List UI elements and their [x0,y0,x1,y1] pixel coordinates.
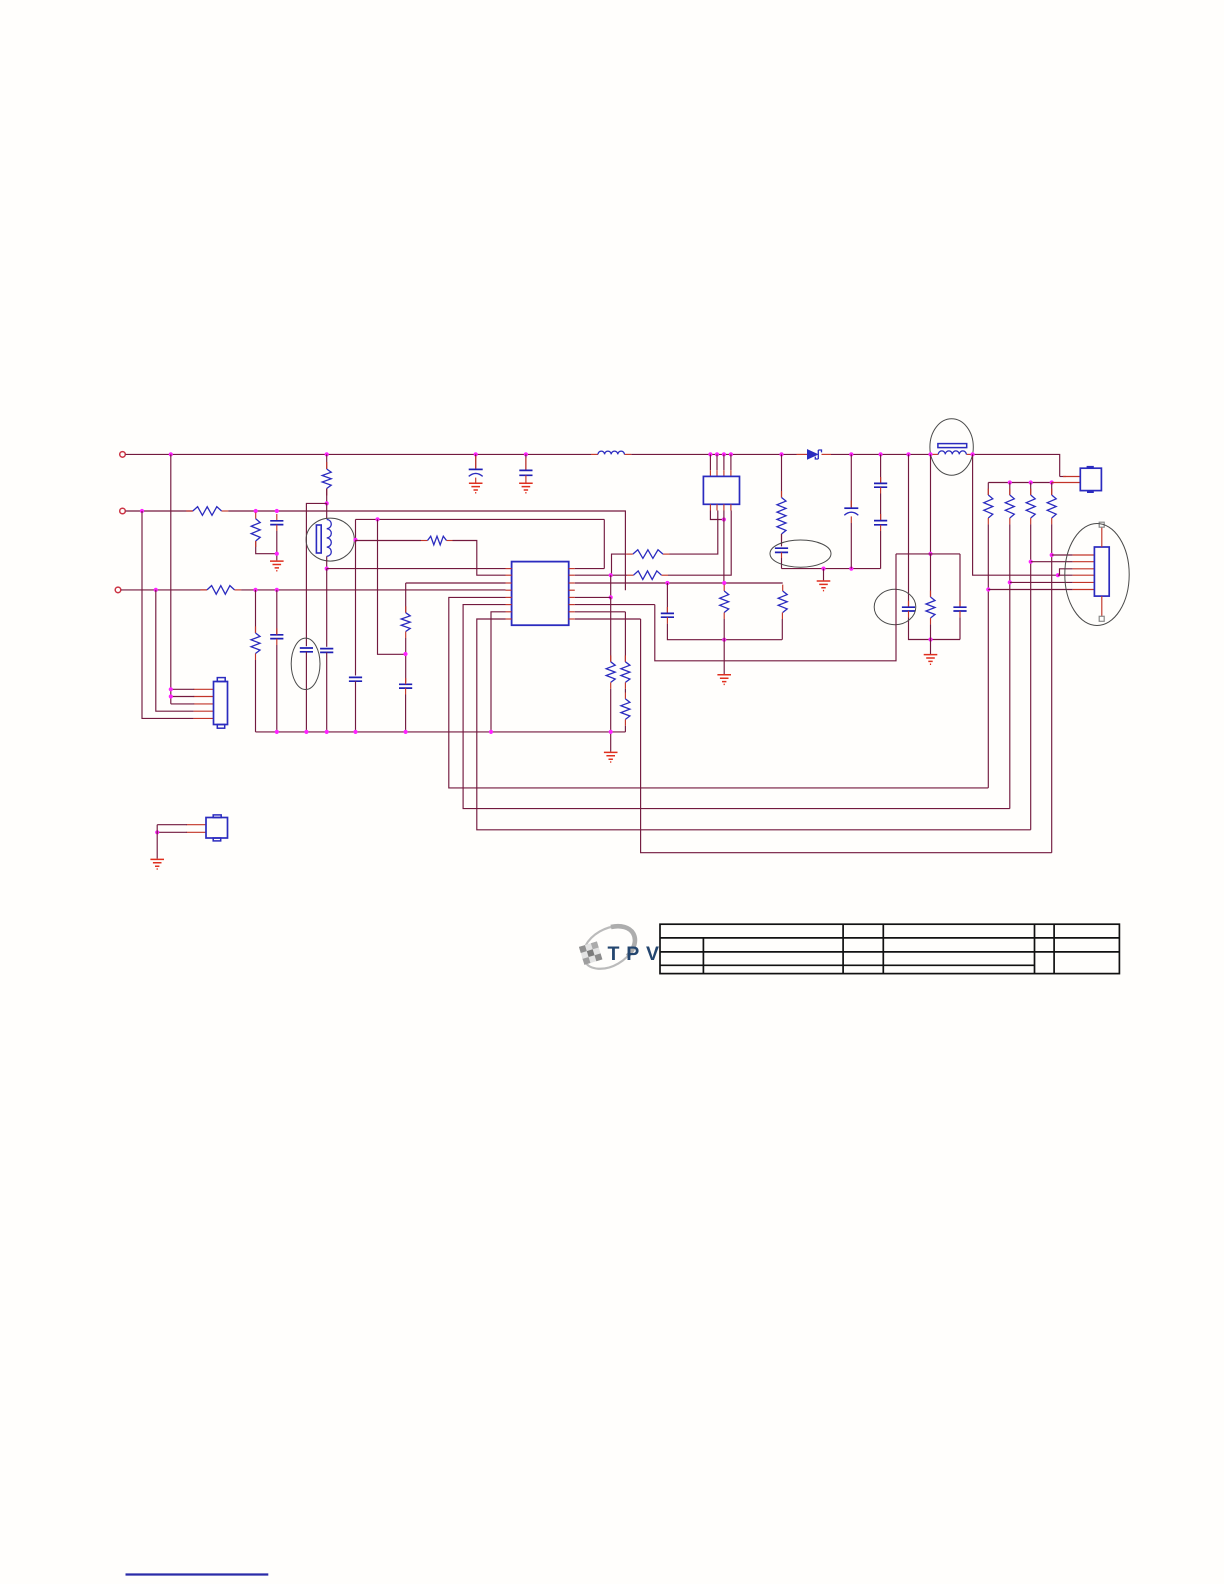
junction C3/R2 node [275,552,279,556]
resistor R1 [193,507,222,516]
junction line1/x908 [906,452,910,456]
wire line1 to C10 [850,454,852,507]
wire CN3 pin6 row [988,589,1072,591]
resistor R3 [322,469,331,489]
resistor R12 [926,597,935,618]
junction pin11/C15 [665,581,669,585]
wire R2 bottom link [256,541,277,554]
capacitor C15 [661,613,674,617]
resistor R5 [207,586,235,595]
wire crystal top to C5 column [306,503,326,646]
title block outer frame [660,924,1119,973]
wire net-box top edge [896,553,960,555]
capacitor C4 [270,635,283,639]
wire CN1 pin1 [171,688,194,690]
wire rail to R20 [1009,483,1011,496]
pin stub CN3 bottom [1101,596,1103,616]
crystal X1 coil [327,520,332,557]
junction line1/x170 [169,452,173,456]
capacitor C7 [399,684,412,688]
junction topedge/x930 [928,552,932,556]
junction line1/C10 [849,452,853,456]
wire R7 column top [405,583,407,613]
capacitor C11 [874,483,887,487]
annotation circle around C13 [874,589,916,624]
resistor R22 [1047,495,1056,518]
connector CN1 body [214,682,228,725]
TPV logo swoosh [576,917,643,977]
wire ground bus y732 [256,731,626,733]
annotation ellipse around L2 [930,419,973,475]
wire pin15 column [624,612,626,662]
wire C13 to net-box bottom edge [909,617,961,639]
wire top rail segment A [126,453,592,455]
resistor R6 [251,633,260,654]
wire line1 to C1 [475,454,477,468]
wire rail to R22 [1051,483,1053,496]
wire rail to R21 [1030,483,1032,496]
resistor R9 (tall) [777,498,786,535]
wire line1 to C2 [525,454,527,470]
wire pin16 loop4 [641,619,1052,853]
connector CN3 pin stubs [1073,555,1095,590]
wire x930 to R12 [930,554,932,597]
capacitor C10 (polarized) [844,507,858,509]
connector CN1 top tab [217,678,225,682]
junction line1/R9col [779,452,783,456]
wire net-box right edge to C14 [959,554,961,607]
wire U2 pin6 to R11 row [670,511,718,555]
wire U1 pin3 to R7 [406,582,506,584]
junction bus/C4 [275,730,279,734]
wire R6 to gnd bus [255,660,257,732]
ferrite bead FB1 bar [938,444,967,448]
resistor R21 [1026,495,1035,518]
wire CN3 pin1 row [1052,554,1073,556]
junction line2/C3col [275,509,279,513]
ground symbol at local bus [817,581,831,591]
wire crystal bottom [326,556,328,568]
junction crystal top node [325,501,329,505]
pin stub CN3 top [1101,527,1103,547]
wire x377 drop to C7 node [378,519,406,654]
mounting square CN3 bottom [1099,616,1104,621]
junction line1/U2 pin1 [708,452,712,456]
wire top rail segment C [831,453,932,455]
junction U2 pin5/pin7 col [722,517,726,521]
ground symbol below bus [604,752,618,762]
wire local bus y568 [782,568,881,570]
wire U1 pin11 row [575,582,783,584]
wire C4 to gnd bus [276,645,278,732]
junction net data3/CN3 [1029,560,1033,564]
pin stub inductor L1 right [624,453,631,455]
wire x142 to CN1 pin5 [142,511,194,718]
wire C5 to gnd bus [305,652,307,732]
junction line3/C4col [275,588,279,592]
wire ground stem x930 [930,640,932,655]
wire R6 column [255,590,257,633]
wire CN1 pin3 [171,703,194,705]
junction y639/U2pin7 gnd [722,638,726,642]
component Y2 top tab [1087,466,1094,469]
junction R7col/x377 jog [403,652,407,656]
junction bus568/C10col [849,567,853,571]
wire line1 to C11 [880,454,882,483]
junction line2/x142 [140,509,144,513]
IC U2 (top supervisor) [703,476,739,504]
pin stub diode D1 cathode [822,453,832,455]
capacitor C3 [270,521,283,525]
wire osc loop top [356,518,605,520]
wire U1 pin15 row [575,611,626,613]
capacitor C9 [775,548,788,552]
ground symbol under C2 [519,483,533,493]
connector CN2 pin stubs [186,825,206,833]
wire C6 to gnd bus [326,652,328,732]
wire crystal net to U1 pin1 [327,568,506,570]
connector CN1 bottom tab [217,725,224,729]
wire pin10 node drop [610,575,612,597]
terminal J1 (top input) [120,452,126,458]
capacitor C5 [300,648,313,652]
wire CN2 pin1 [157,824,187,826]
junction x170/CN1 pin1 [169,687,173,691]
annotation circle around crystal X1 [306,518,354,561]
wire crystal top node to coil [326,503,328,519]
junction bus/C7 [404,730,408,734]
terminal J3 (lower input) [115,587,121,593]
junction x170/CN1 pin2 [169,694,173,698]
wire line3 segment B to U1 pin4 [241,589,505,591]
junction line3/x155 [154,588,158,592]
ground symbol right of U1 [924,655,938,665]
mounting square CN3 top [1099,522,1104,527]
annotation ellipse around CN3 [1065,524,1129,626]
wire R9 to C9 [781,534,783,546]
capacitor C2 [519,470,532,475]
capacitor C14 [953,607,966,611]
wire C10 to local bus [850,523,852,569]
junction bus/pin7 [489,730,493,734]
wire C4 column [276,590,278,635]
capacitor C12 [874,521,887,525]
wire U2 pin2 top [716,454,718,470]
junction line1/U2 pin4 [729,452,733,456]
capacitor C6 [320,649,333,653]
wire U1 pin5 loop1 [449,597,989,788]
junction line1/x930 [928,452,932,456]
ground symbol under CN2 [150,859,164,869]
wire C14 to bottom edge [959,617,961,639]
wire U1 pin7 to gnd bus [491,612,506,732]
junction net data2/CN3 [1008,580,1012,584]
resistor R2 [251,519,260,541]
pin stub Y2 pin2 [1052,482,1081,484]
wire U2 pin3 top [723,454,725,470]
component Y2 bottom tab [1087,490,1094,493]
junction rail/col3 [1029,480,1033,484]
resistor R17 [621,662,630,683]
junction line1/U2 pin3 [722,452,726,456]
junction line1/C2 [524,452,528,456]
wire net data4 column [1051,524,1053,852]
svg-text:TPV: TPV [608,943,666,965]
wire U1 pin10 row [575,574,627,576]
wire line1 x908 column [908,454,910,607]
wire top rail segment B [631,453,796,455]
wire CN2 pin2 [157,831,187,833]
wire CN3 pin5 row [1010,581,1073,583]
wire pin13 to R14 [610,597,612,661]
junction pin10/pin13 row [609,595,613,599]
junction crystal bottom node [325,567,329,571]
wire C3 to ground [276,531,278,560]
junction net data1/CN3 [986,587,990,591]
junction CN2 pin2/gnd col [155,830,159,834]
resistor R16 [778,591,787,613]
pin stub diode D1 anode [797,453,808,455]
wire CN2 to ground [156,825,158,859]
wire R3 to crystal top node [326,489,328,504]
junction line2/R2col [254,509,258,513]
wire pin3 step [1058,569,1073,575]
wire U2pin7 col to ground [723,619,725,674]
resistor R19 [984,495,993,518]
wire C11 to C12 [880,494,882,521]
wire U2 pin4 top [730,454,732,470]
wire R16 to y639 link [781,619,783,640]
wire R17 to R18 [624,689,626,693]
crystal X1 body [316,525,321,553]
capacitor C1 (polarized) [469,468,483,470]
junction line3/R6col [253,588,257,592]
wire osc node to R4 [356,540,422,542]
footer blue line [126,1573,269,1575]
wire U2 pin1 top [709,454,711,470]
wire pullup rail [988,482,1051,484]
wire net data2 column [1009,524,1011,808]
connector CN3 body [1094,547,1109,596]
wire line1 to R3 [326,454,328,469]
resistor R20 [1005,495,1014,518]
wire gnd stem x610 [610,732,612,752]
wire C7 to gnd bus [405,695,407,732]
wire x155 to CN1 pin4 [156,590,194,711]
junction osc left node [353,538,357,542]
junction osc loop / x377 [375,517,379,521]
connector CN2 body [206,818,228,839]
resistor R11 [633,550,663,559]
wire R12 to bottom edge [930,624,932,639]
wire CN3 pin2 row [1031,561,1073,563]
wire osc loop riser right to U1 pin9 [603,519,605,568]
wire gnd stem at 823 [823,569,825,581]
pin stub inductor L2 left [932,453,939,455]
wire U1 pin14 row [575,604,655,606]
wire CN1 pin2 [171,696,194,698]
wire R14 to gnd bus [610,689,612,732]
IC U1 (main controller) [512,562,569,626]
capacitor C8 [349,677,362,681]
junction bus/C6 [325,730,329,734]
component Y2 body [1080,468,1101,490]
junction bus/C5 [304,730,308,734]
pin stub inductor L1 left [591,453,598,455]
wire U1 pin16 row [575,618,641,620]
resistor R15 [720,591,729,613]
inductor L2 [938,451,966,454]
inductor L1 [598,451,624,454]
junction bus/C8 [353,730,357,734]
pin stub inductor L2 right [966,453,972,455]
junction rail/col2 [1008,480,1012,484]
connector CN2 bottom tab [213,838,221,841]
wire U1 pin6 loop2 [463,605,1010,809]
junction pin4/pin3 step [1056,573,1060,577]
junction line1/R3col [325,452,329,456]
wire pin14 big loop [655,554,896,661]
resistor R18 [621,699,630,720]
junction bus/R14 [609,730,613,734]
junction net data4/CN3 [1050,553,1054,557]
wire U1 pin8 loop3 [477,619,1031,830]
wire U2 pin5 jog [710,511,724,520]
wire C9 to local bus [781,558,783,569]
annotation ellipse around C9 [770,540,831,567]
connector CN1 pin stubs [194,689,214,718]
wire R13 to U2 pin8 [668,511,731,576]
wire net data3 column [1030,524,1032,829]
wire U1 pin9 (R1 row) [575,568,605,570]
wire line2 segment A [126,510,193,512]
resistor R7 [401,613,410,632]
junction line1/C11 [879,452,883,456]
wire U1 pin13 row [575,596,611,598]
wire C12 to local bus [880,531,882,569]
wire line1 to R9 [781,454,783,497]
annotation ellipse around C5 [291,638,320,689]
junction bus568/gnd stem [821,567,825,571]
wire R11 to R-net junction [612,554,627,575]
junction line1/U2 pin2 [715,452,719,456]
wire C8 to gnd bus [355,681,357,732]
resistor R13 [634,571,662,580]
wire line2 segment B to U1 pin12 riser [228,511,625,590]
wire line1 corner to Y2 [1060,476,1066,478]
junction pin10 node [609,573,613,577]
ground symbol under C3 [270,561,284,571]
ground symbol under R15 [717,675,731,685]
junction pin11/U2pin7 [722,581,726,585]
wire R4 to U1 pin2 [453,541,506,576]
pin stub Y2 pin1 [1063,476,1080,478]
resistor R4 [428,536,447,545]
capacitor C13 [902,607,915,611]
wire rail to R19 [987,483,989,496]
wire line3 segment A [121,589,207,591]
wire x170 line1 to CN1 pins [170,454,172,704]
wire R18 to gnd bus [624,726,626,732]
terminal J2 (middle input) [120,508,126,514]
wire R7 to C7 [405,638,407,683]
wire line1 to CN3 pin4 [973,454,1073,575]
resistor R14 [606,662,615,683]
junction bottom edge/R12col [928,637,932,641]
wire x355 drop to C8 [355,540,357,676]
wire C15 to y639 link [667,624,782,640]
junction rail/col4 [1050,480,1054,484]
TPV logo checker square [579,941,602,964]
wire C15 column [666,583,668,613]
wire line1 x930 column [930,454,932,554]
junction line1/C1 [474,452,478,456]
connector CN2 top tab [213,815,221,818]
wire U2 pin7 column [723,511,725,585]
junction line1/L2 right [971,452,975,456]
wire top rail segment D [973,454,1060,476]
wire crystal bottom to C6 column [326,569,328,647]
wire net data1 column [987,524,989,788]
diode D1 [808,450,818,459]
wire osc loop left drop [355,519,357,540]
ground symbol under C1 [469,483,483,493]
